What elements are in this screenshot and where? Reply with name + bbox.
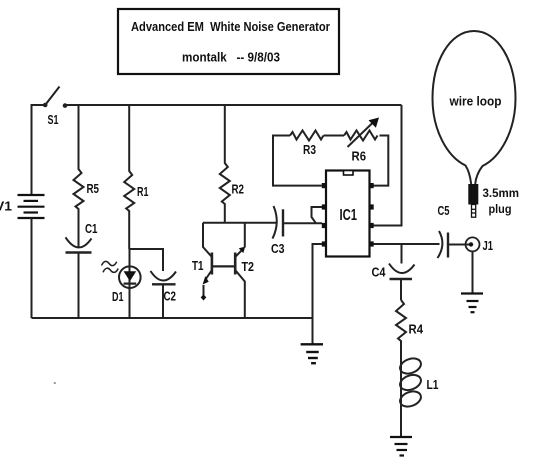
inductor L1 <box>398 356 439 410</box>
antenna wire loop <box>433 31 516 184</box>
diode LED D1 <box>102 249 141 318</box>
wire J1 to ground <box>472 252 474 294</box>
svg-text:R1: R1 <box>137 184 149 199</box>
resistor R3 <box>290 131 324 158</box>
wire battery top to top-left corner <box>32 105 46 195</box>
wire collector rail T1-T2-C3 <box>203 222 276 224</box>
svg-text:R5: R5 <box>87 181 100 196</box>
jack J1 <box>466 237 494 253</box>
wire top rail down to IC1 pin3 right <box>374 105 402 226</box>
resistor R4 <box>396 300 424 358</box>
wire junction down to C4 <box>401 244 403 264</box>
IC IC1 <box>322 171 374 257</box>
svg-text:Advanced EM White Noise Gener: Advanced EM White Noise Generator <box>131 19 330 34</box>
wire battery bottom to rail <box>31 218 33 318</box>
3.5mm plug <box>468 184 519 217</box>
wire T1-T2 base link <box>212 265 235 267</box>
svg-text:J1: J1 <box>483 238 494 253</box>
wire bottom ground rail <box>32 317 313 319</box>
svg-text:C4: C4 <box>372 265 387 280</box>
speck artifact <box>54 382 56 384</box>
wire top rail <box>65 104 402 106</box>
svg-text:wire loop: wire loop <box>449 94 502 109</box>
svg-text:montalk -- 9/8/03: montalk -- 9/8/03 <box>182 50 280 65</box>
resistor R2 <box>220 105 244 223</box>
wire C3 to IC1 pin3 with pin2 hook <box>283 207 322 223</box>
capacitor C2 <box>151 271 177 318</box>
svg-text:R3: R3 <box>303 142 316 157</box>
switch S1 <box>43 87 67 128</box>
ground J1 <box>461 294 483 313</box>
svg-text:L1: L1 <box>427 377 439 392</box>
wire loop middle <box>324 135 345 137</box>
wire IC1 pin4 right to C5 <box>374 243 440 245</box>
transistor T2 <box>235 223 254 318</box>
svg-text:C2: C2 <box>164 289 177 304</box>
wire C5 to J1 <box>448 244 470 246</box>
wire feedback loop right <box>374 136 389 186</box>
svg-text:R6: R6 <box>352 149 367 164</box>
capacitor C5 <box>438 203 450 258</box>
battery V1 <box>0 195 45 218</box>
svg-text:C3: C3 <box>271 241 285 256</box>
svg-text:IC1: IC1 <box>340 207 358 224</box>
capacitor C1 <box>66 221 98 318</box>
svg-text:plug: plug <box>489 202 512 216</box>
svg-text:T2: T2 <box>242 259 255 274</box>
svg-text:C5: C5 <box>438 203 450 218</box>
svg-text:R4: R4 <box>409 322 424 337</box>
svg-text:V1: V1 <box>0 199 12 214</box>
wire feedback loop left <box>273 136 322 186</box>
resistor R1 <box>124 105 148 249</box>
potentiometer R6 <box>344 118 379 164</box>
svg-text:T1: T1 <box>192 258 204 273</box>
svg-text:3.5mm: 3.5mm <box>483 186 520 200</box>
svg-text:R2: R2 <box>232 182 245 197</box>
ground L1 <box>390 437 412 456</box>
svg-text:S1: S1 <box>48 112 59 127</box>
wire L1 to ground <box>400 406 402 437</box>
title box <box>118 9 339 74</box>
ground main <box>301 344 323 363</box>
capacitor C3 <box>271 206 285 256</box>
wire IC1 pin4 left down to ground <box>313 244 323 344</box>
capacitor C4 <box>372 264 415 280</box>
svg-text:D1: D1 <box>112 289 124 304</box>
wire C4 to R4 <box>400 279 402 300</box>
wire R1 junction to C2 <box>129 249 163 271</box>
transistor T1 <box>192 223 212 301</box>
svg-text:C1: C1 <box>85 221 98 236</box>
resistor R5 <box>74 105 100 247</box>
